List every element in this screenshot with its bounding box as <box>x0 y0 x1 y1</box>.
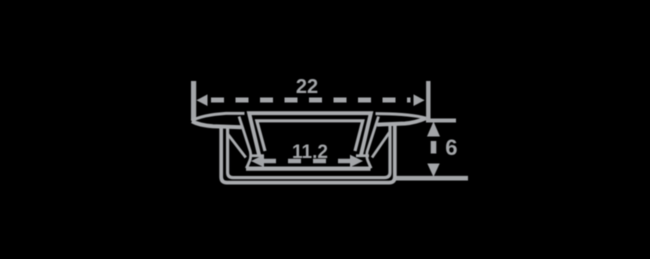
svg-text:6: 6 <box>445 135 457 160</box>
svg-text:11.2: 11.2 <box>292 142 328 163</box>
svg-text:22: 22 <box>296 76 318 98</box>
